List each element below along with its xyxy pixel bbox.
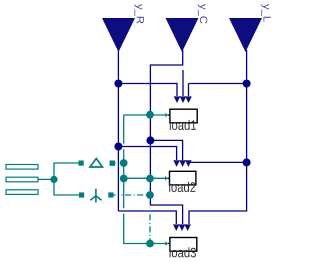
node teal junction wye row [146, 191, 154, 199]
wire y_R top horizontal to load1 left input [118, 84, 177, 97]
label y_R [134, 4, 143, 24]
connector y_C input triangle [166, 18, 199, 52]
wire y_L vertical main [189, 50, 247, 224]
black stub into load1 [168, 114, 170, 116]
node junction y_R/load1 [114, 80, 122, 88]
casing y_R middle horizontal [118, 147, 176, 161]
node junction y_R/load2 [114, 143, 122, 151]
wire y_L load1 drop [188, 84, 190, 97]
load3 box [170, 238, 197, 252]
teal wire delta output to bus [115, 162, 124, 164]
wire y_C horizontal to load2 middle input [150, 140, 182, 160]
casing y_R vertical [116, 53, 121, 211]
label y_C [198, 4, 208, 24]
teal arrow into load3 [165, 241, 168, 246]
connector y_R input triangle [102, 18, 135, 52]
node junction y_C/load2 [146, 136, 154, 144]
load2 box [170, 171, 196, 185]
teal dash-dot wire wye output horizontal [113, 194, 150, 196]
teal arrow into load1 [165, 113, 168, 118]
node junction y_L/load1 [243, 80, 251, 88]
load1 input arrow C [180, 96, 187, 103]
teal wire to load1 [124, 114, 166, 116]
load2 input arrow L [185, 160, 192, 167]
wire y_R middle horizontal to load2 left input [118, 147, 176, 161]
casing y_L vertical [189, 53, 247, 224]
node teal junction load2 [146, 175, 154, 183]
black stub into load2 [168, 177, 170, 179]
node junction y_L/load2 [243, 158, 251, 166]
delta block output square [110, 161, 115, 166]
casing y_C stub [180, 70, 185, 96]
teal wire rect2 to junction [38, 178, 54, 180]
load3 input arrow L [184, 224, 191, 231]
casing y_R bottom horizontal [118, 211, 176, 224]
wye block output square [108, 192, 113, 197]
casing y_C load2 horizontal [150, 140, 182, 160]
wye symbol [90, 189, 101, 203]
wire y_C stub to load1 middle input [182, 70, 184, 96]
load3 input arrow R [173, 224, 180, 231]
load2 input arrow R [173, 160, 180, 167]
teal arrow into load2 [165, 176, 168, 181]
load1 box [170, 109, 197, 123]
load1 input arrow R [174, 96, 181, 103]
wye block input square [79, 192, 84, 197]
casing y_C path [150, 53, 182, 224]
wire y_L horizontal to load1 right input [189, 83, 247, 85]
wire y_C from apex through corner down to load3 middle input [150, 50, 182, 224]
node teal junction [50, 176, 57, 183]
load2 input arrow C [179, 160, 186, 167]
label load1 [170, 120, 196, 130]
teal wire junction split to delta and wye rows [54, 163, 79, 195]
node teal junction delta row [120, 159, 128, 167]
casing y_R top horizontal [118, 84, 177, 97]
black stub into load3 [168, 243, 170, 245]
label y_L [261, 4, 270, 22]
wire casing group (white halo under blue wires) [118, 53, 246, 224]
load1 input arrow L [185, 96, 192, 103]
teal wire to load2 [124, 177, 166, 179]
teal dash-dot wire down to load3 [149, 195, 151, 243]
wire y_L horizontal to load2 right input [188, 161, 246, 163]
delta symbol [90, 159, 102, 168]
node teal junction load2 branch [120, 175, 128, 183]
node teal junction load3 [146, 240, 154, 248]
wire y_R vertical main [117, 50, 119, 211]
delta block input square [79, 161, 84, 166]
label load3 [170, 247, 196, 257]
wire y_R bottom horizontal to load3 left input [118, 211, 176, 224]
connector y_L input triangle [229, 18, 262, 52]
casing y_L load1 horizontal [189, 81, 247, 86]
node teal junction load1 [146, 111, 154, 119]
label load2 [169, 182, 195, 192]
casing y_L load2 horizontal [188, 160, 246, 165]
teal source rectangle 3 [6, 190, 38, 195]
teal source rectangle 2 [6, 177, 38, 182]
load3 input arrow C [179, 224, 186, 231]
teal bus vertical [123, 115, 125, 243]
teal wire to load3 [124, 243, 166, 244]
teal source rectangle 1 [6, 165, 38, 170]
